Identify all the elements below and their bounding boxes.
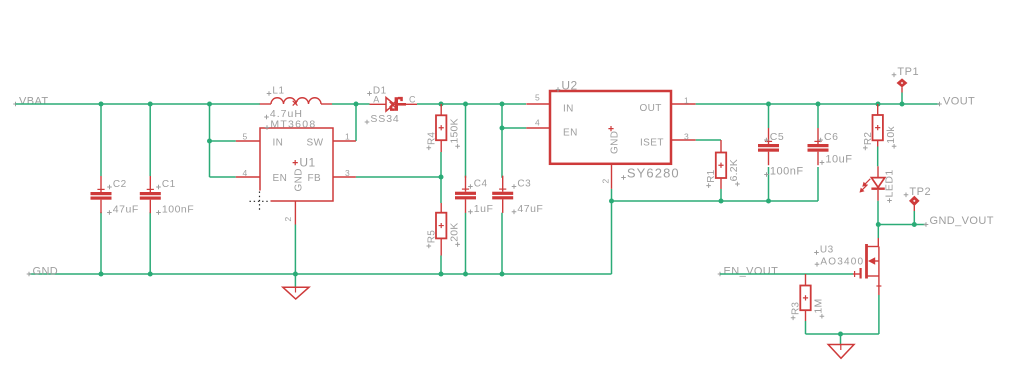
pin 4 EN stub	[526, 127, 550, 129]
label C1	[156, 185, 161, 190]
svg-text:20K: 20K	[448, 223, 460, 242]
pin 3 ISET stub	[671, 139, 696, 141]
svg-text:LED1: LED1	[884, 169, 896, 197]
resistor R4	[426, 115, 460, 150]
svg-text:GND: GND	[33, 265, 59, 277]
value label MT3608	[265, 125, 270, 130]
label 10uF	[820, 160, 825, 165]
value label 10k	[892, 144, 897, 149]
name label R4	[427, 146, 432, 151]
value label 1M	[820, 314, 825, 319]
junction	[838, 332, 843, 337]
wire	[440, 152, 442, 177]
wire	[611, 189, 613, 201]
pin 4 EN stub	[236, 176, 260, 178]
wire	[29, 273, 612, 275]
label C5	[764, 138, 769, 143]
U1 origin crosshair	[250, 192, 270, 212]
capacitor C1	[140, 176, 194, 216]
name label R1	[706, 183, 711, 188]
svg-text:TP1: TP1	[897, 66, 919, 78]
svg-text:MT3608: MT3608	[270, 119, 316, 131]
value label 150K	[455, 144, 460, 149]
junction	[148, 272, 153, 277]
label C3	[512, 184, 517, 189]
capacitor C4	[455, 176, 493, 215]
junction	[354, 102, 359, 107]
wire	[806, 333, 879, 335]
wire	[696, 139, 721, 141]
junction	[500, 126, 505, 131]
svg-text:L1: L1	[272, 86, 284, 97]
svg-text:10uF: 10uF	[825, 154, 852, 166]
svg-text:VOUT: VOUT	[943, 95, 975, 107]
junction	[500, 272, 505, 277]
svg-text:IN: IN	[273, 138, 284, 149]
svg-text:EN: EN	[563, 128, 578, 139]
label C4	[468, 184, 473, 189]
test point TP1	[892, 66, 919, 93]
svg-text:R5: R5	[426, 230, 437, 243]
resistor R3	[791, 286, 825, 321]
pin 1 OUT stub	[671, 103, 696, 105]
svg-text:SY6280: SY6280	[627, 166, 680, 181]
svg-text:47uF: 47uF	[517, 203, 543, 215]
wire	[100, 104, 102, 176]
junction	[876, 222, 881, 227]
wire	[294, 274, 296, 287]
svg-text:5: 5	[243, 132, 248, 142]
capacitor C3	[492, 176, 543, 215]
svg-text:C4: C4	[474, 179, 488, 190]
inductor L1	[260, 86, 332, 121]
name label TP2	[904, 193, 909, 198]
svg-text:4: 4	[243, 168, 248, 178]
label 47uF	[512, 210, 517, 215]
wire	[805, 321, 807, 334]
svg-text:EN_VOUT: EN_VOUT	[724, 265, 779, 277]
junction	[439, 272, 444, 277]
svg-text:SW: SW	[307, 138, 324, 149]
svg-text:GND: GND	[610, 131, 621, 154]
wire	[332, 103, 370, 105]
resistor R2	[863, 115, 897, 150]
junction	[609, 199, 614, 204]
U2 origin cross and name	[608, 126, 613, 131]
wire	[149, 104, 151, 176]
junction	[99, 102, 104, 107]
svg-text:2: 2	[283, 217, 293, 222]
net label EN_VOUT	[718, 265, 779, 277]
svg-text:TP2: TP2	[909, 186, 931, 198]
name label D1	[367, 91, 372, 96]
wire	[878, 224, 926, 226]
capacitor C6	[808, 128, 853, 166]
junction	[148, 102, 153, 107]
svg-text:1M: 1M	[813, 299, 825, 314]
net label VBAT	[13, 95, 48, 107]
resistor R1	[706, 153, 740, 188]
junction	[719, 199, 724, 204]
wire	[913, 211, 915, 225]
wire	[720, 273, 853, 275]
svg-text:C3: C3	[517, 179, 531, 190]
svg-text:GND: GND	[294, 168, 305, 191]
svg-text:1: 1	[345, 132, 350, 142]
capacitor C2	[91, 176, 139, 216]
svg-text:3: 3	[684, 132, 689, 142]
wire	[877, 201, 879, 225]
svg-text:U3: U3	[820, 245, 834, 256]
svg-text:R1: R1	[706, 169, 717, 182]
op-amp U1 MT3608 box	[236, 119, 356, 225]
ground	[283, 287, 309, 299]
junction	[876, 102, 881, 107]
pin 3 FB stub	[333, 176, 356, 178]
junction	[207, 102, 212, 107]
name label R2	[863, 146, 868, 151]
value label 6.2K	[735, 182, 740, 187]
svg-text:10k: 10k	[885, 126, 897, 144]
junction	[766, 102, 771, 107]
wire	[768, 167, 770, 201]
svg-text:5: 5	[535, 93, 540, 103]
wire	[611, 201, 613, 274]
junction	[463, 272, 468, 277]
op-amp U2 SY6280 box	[526, 79, 695, 189]
wire	[817, 104, 819, 128]
junction	[816, 102, 821, 107]
svg-text:C1: C1	[162, 179, 176, 190]
wire	[501, 104, 503, 178]
junction	[99, 272, 104, 277]
svg-text:100nF: 100nF	[162, 204, 194, 216]
wire	[355, 104, 357, 141]
wire	[768, 104, 770, 128]
svg-text:SS34: SS34	[370, 113, 399, 125]
wire	[877, 225, 879, 239]
wire	[878, 295, 880, 334]
label C6	[818, 138, 823, 143]
wire	[502, 127, 526, 129]
name label LED1	[887, 198, 892, 203]
svg-text:IN: IN	[563, 104, 574, 115]
ground	[828, 345, 854, 359]
wire	[209, 104, 211, 177]
wire	[696, 103, 940, 105]
wire	[210, 176, 236, 178]
pin 2 GND stub	[294, 201, 296, 225]
test point TP2	[904, 186, 931, 211]
svg-text:1uF: 1uF	[474, 203, 494, 215]
svg-text:1: 1	[684, 96, 689, 106]
pin 1 SW stub	[333, 140, 356, 142]
wire	[817, 167, 819, 201]
net label VOUT	[937, 95, 975, 107]
wire	[16, 103, 261, 105]
value label SY6280	[621, 175, 626, 180]
LED LED1	[860, 166, 896, 203]
svg-text:2: 2	[601, 179, 611, 184]
svg-text:C2: C2	[113, 179, 127, 190]
name label L1	[267, 91, 272, 96]
svg-text:C: C	[409, 95, 416, 105]
svg-text:ISET: ISET	[640, 138, 664, 149]
net label GND_VOUT	[924, 215, 994, 227]
wire	[294, 225, 296, 275]
name label TP1	[892, 73, 897, 78]
diode D1 SS34	[365, 86, 417, 126]
wire	[901, 93, 903, 105]
svg-text:U2: U2	[561, 79, 577, 93]
svg-text:A: A	[373, 95, 379, 105]
wire	[417, 103, 526, 105]
junction	[500, 102, 505, 107]
wire	[149, 212, 151, 274]
svg-text:OUT: OUT	[640, 103, 662, 114]
resistor R5	[426, 213, 460, 249]
value label 20K	[455, 242, 460, 247]
svg-text:R2: R2	[863, 132, 874, 145]
svg-text:4: 4	[535, 118, 540, 128]
wire	[465, 104, 467, 178]
name label U3	[814, 250, 819, 255]
svg-text:U1: U1	[299, 156, 315, 170]
wire	[210, 140, 236, 142]
svg-text:3: 3	[345, 168, 350, 178]
pin 5 IN stub	[526, 103, 550, 105]
svg-text:C5: C5	[770, 131, 784, 143]
wire	[720, 189, 722, 201]
svg-text:EN: EN	[273, 173, 288, 184]
svg-text:FB: FB	[308, 173, 322, 184]
svg-text:R3: R3	[791, 302, 802, 315]
junction	[293, 272, 298, 277]
junction	[900, 102, 905, 107]
value label 4.7uH	[264, 115, 269, 120]
capacitor C5	[758, 128, 804, 178]
net label GND	[27, 265, 58, 277]
wire	[440, 177, 442, 203]
label C2	[107, 185, 112, 190]
wire	[465, 213, 467, 274]
name label R3	[791, 316, 796, 321]
junction	[439, 102, 444, 107]
pin 5 IN stub	[236, 140, 260, 142]
svg-text:VBAT: VBAT	[19, 95, 49, 107]
wire	[440, 256, 442, 275]
svg-text:GND_VOUT: GND_VOUT	[930, 215, 994, 227]
svg-text:R4: R4	[426, 132, 437, 145]
label 1uF	[468, 210, 473, 215]
svg-text:150K: 150K	[448, 118, 460, 143]
pin 2 GND stub	[611, 164, 613, 189]
wire	[356, 176, 441, 178]
wire	[100, 212, 102, 274]
name label R5	[427, 244, 432, 249]
label 47uF	[107, 210, 112, 215]
wire	[840, 334, 842, 345]
junction	[463, 102, 468, 107]
label 100nF	[156, 210, 161, 215]
junction	[207, 139, 212, 144]
svg-text:100nF: 100nF	[770, 166, 804, 178]
svg-text:AO3400: AO3400	[820, 256, 864, 267]
U1 origin cross and name	[293, 160, 298, 165]
wire	[612, 200, 819, 202]
wire	[501, 213, 503, 274]
value label AO3400	[815, 262, 820, 267]
junction	[766, 199, 771, 204]
svg-text:47uF: 47uF	[113, 204, 139, 216]
label 100nF	[764, 172, 769, 177]
transistor U3 AO3400	[814, 238, 881, 295]
wire	[877, 147, 879, 167]
svg-text:6.2K: 6.2K	[728, 159, 740, 181]
svg-text:C6: C6	[824, 131, 838, 143]
value label SS34	[365, 120, 370, 125]
junction	[439, 175, 444, 180]
junction	[912, 222, 917, 227]
